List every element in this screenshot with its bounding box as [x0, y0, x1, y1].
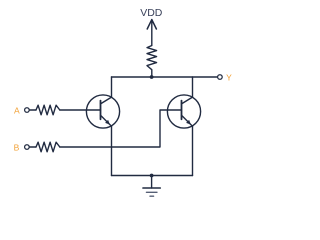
resistor R2 (input A): [36, 105, 60, 115]
junction: R1 / VDD rail: [150, 75, 154, 79]
VDD power arrow: [147, 20, 156, 46]
resistor R3 (input B): [36, 142, 60, 152]
junction: ground rail / ground: [150, 174, 154, 178]
wire: Q2 emitter to ground rail: [192, 126, 194, 175]
resistor R1 (pull-up): [147, 46, 157, 78]
svg-text:VDD: VDD: [140, 7, 163, 19]
svg-text:A: A: [14, 106, 20, 116]
output terminal Y: [218, 75, 223, 80]
transistor Q1: [86, 95, 119, 128]
wire: ground rail: [112, 175, 193, 177]
transistor Q2: [167, 95, 200, 128]
svg-text:Y: Y: [226, 73, 232, 83]
wire: Q1 collector to rail: [111, 77, 113, 97]
wire: R2 to Q1 base: [60, 109, 101, 111]
wire: B terminal lead: [29, 146, 36, 148]
wire: Q2 collector to rail: [192, 77, 194, 97]
input terminal A: [25, 108, 30, 113]
svg-text:B: B: [14, 143, 20, 153]
wire: top rail to Y: [112, 76, 218, 78]
wire: A terminal lead: [29, 109, 36, 111]
input terminal B: [25, 145, 30, 150]
ground: [143, 176, 160, 197]
wire: Q1 emitter to ground rail: [111, 126, 113, 175]
wire: R3 to Q2 base: [60, 110, 182, 147]
